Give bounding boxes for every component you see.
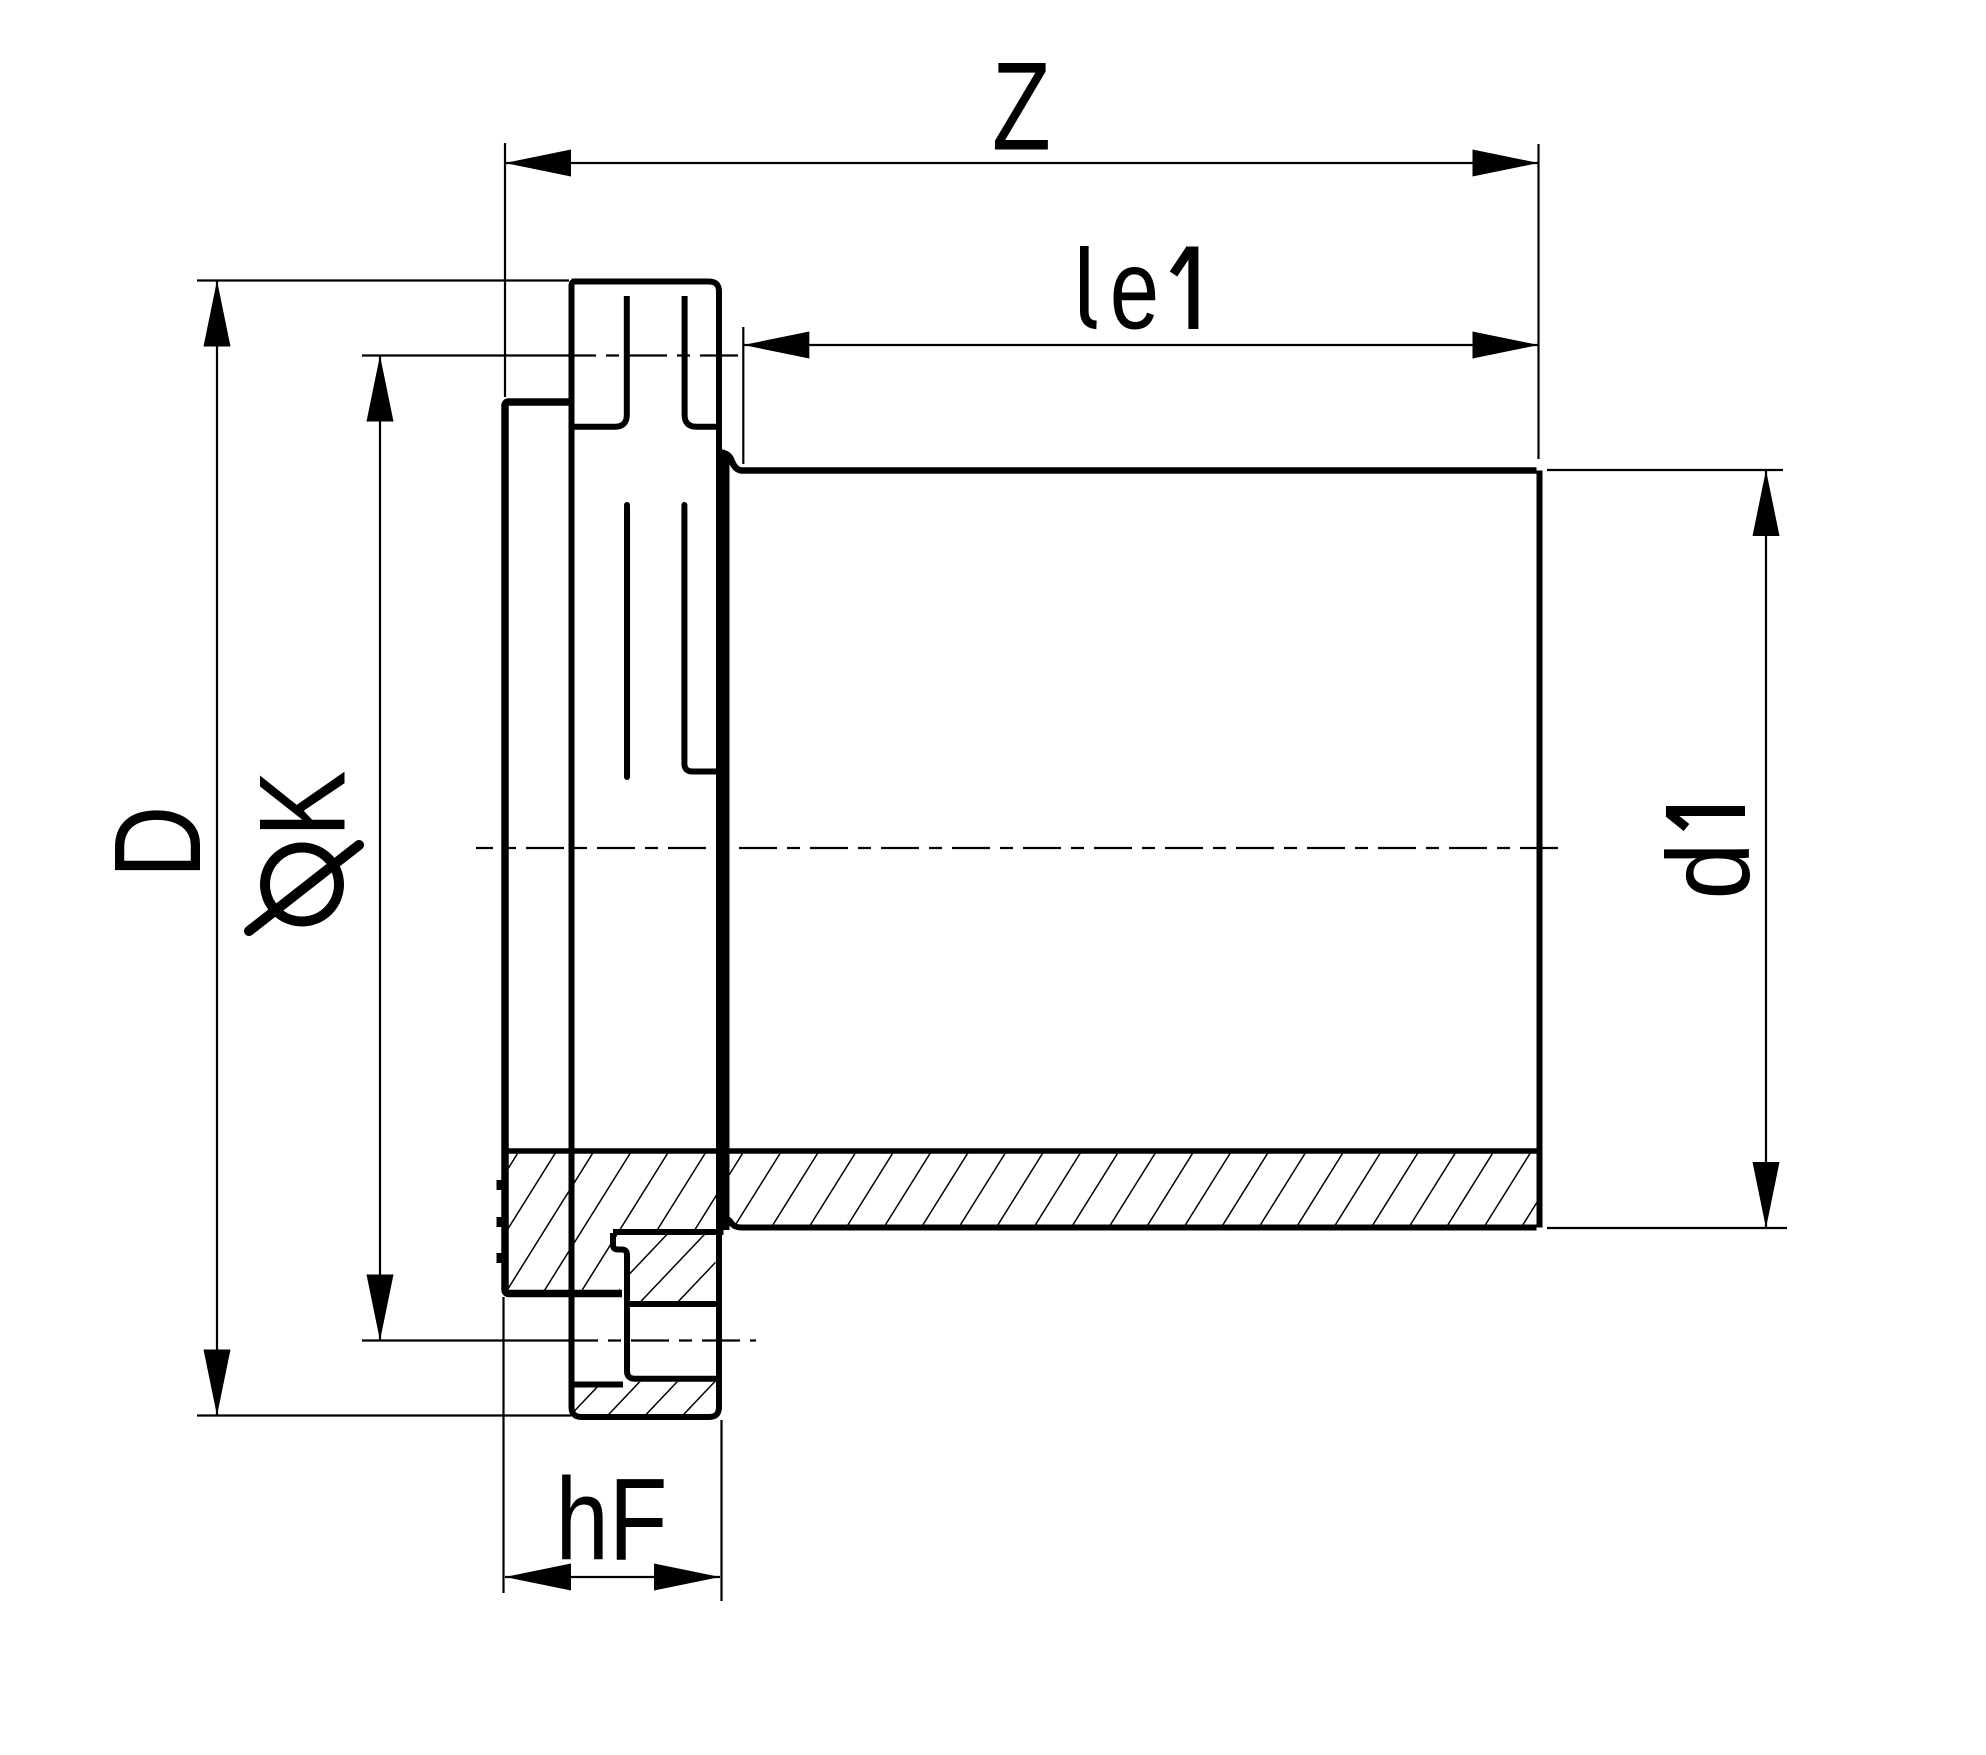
arrow Z right xyxy=(1473,150,1539,177)
bolt hole centerline bottom solid lead xyxy=(362,1339,598,1341)
extension line D top xyxy=(197,279,569,281)
arrow le1 right xyxy=(1473,332,1539,359)
arrow OK bottom xyxy=(367,1275,394,1341)
arrow Z left xyxy=(505,150,571,177)
pipe shoulder bump top and pipe top edge xyxy=(721,453,1537,471)
svg-text:D: D xyxy=(89,806,227,879)
extension line d1 bottom xyxy=(1547,1227,1787,1229)
pipe bottom edge and shoulder bump bottom xyxy=(721,1218,1537,1228)
extension line d1 top xyxy=(1547,469,1783,471)
bolt hole edge lower-right (view) xyxy=(684,505,719,772)
arrow hF right xyxy=(654,1564,720,1591)
dimension line OK xyxy=(379,356,381,1341)
label OK : O circle part xyxy=(265,848,339,922)
bolt hole centerline top solid lead xyxy=(362,354,596,356)
pipe bore line (section) xyxy=(505,1148,1537,1154)
label le1 : 1 glyph stem xyxy=(1188,247,1198,330)
label le1 : l glyph xyxy=(1084,246,1096,325)
hatch backing ring lower part xyxy=(575,1382,716,1414)
svg-text:e: e xyxy=(1110,225,1159,353)
extension line hF right xyxy=(720,1420,722,1601)
bolt hole centerline top dashed xyxy=(606,354,741,356)
label d1 : 1 glyph flag (rotated) xyxy=(1669,813,1687,828)
arrow le1 left xyxy=(743,332,809,359)
ring bore / hub contact line xyxy=(613,1229,724,1235)
arrow d1 bottom xyxy=(1753,1162,1780,1228)
hub back line xyxy=(722,455,730,1230)
bolt hole edge lower-left (view) xyxy=(624,505,630,777)
dimension line d1 xyxy=(1765,470,1767,1228)
dimension line le1 xyxy=(743,344,1538,346)
extension line Z left xyxy=(504,143,506,397)
arrow d1 top xyxy=(1753,470,1780,536)
bolt hole top (section) xyxy=(630,1301,716,1307)
extension line D bottom xyxy=(197,1414,571,1416)
centerline pipe axis xyxy=(476,847,1560,849)
svg-text:Z: Z xyxy=(992,36,1051,176)
arrow hF left xyxy=(505,1564,571,1591)
bolt hole centerline bottom dashed xyxy=(608,1339,756,1341)
ring front shelf left segment xyxy=(572,296,627,427)
serration ticks on face xyxy=(497,1180,503,1190)
hatch backing ring upper part xyxy=(630,1235,716,1301)
backing ring left face / bottom / back xyxy=(572,282,720,1418)
backing ring top edge and back face upper xyxy=(572,282,720,1233)
arrow D top xyxy=(204,281,231,347)
collar sealing face outline xyxy=(505,402,622,1294)
ring front shelf right segment xyxy=(685,296,720,427)
dimension line hF xyxy=(505,1576,720,1578)
arrow OK top xyxy=(367,356,394,422)
svg-text:d: d xyxy=(1644,842,1775,899)
svg-text:K: K xyxy=(232,771,370,838)
label d1 : 1 glyph stem (rotated) xyxy=(1666,806,1745,816)
hatch collar cross-section (pipe wall + flange) xyxy=(508,1154,1537,1291)
ring bore notch and recess shoulder and hole bottom xyxy=(613,1233,716,1379)
dimension line Z xyxy=(505,162,1539,164)
label OK : O slash part xyxy=(249,845,359,931)
extension line Z/le1 right xyxy=(1537,144,1539,459)
pipe right end face xyxy=(1537,471,1543,1228)
dimension line D xyxy=(216,281,218,1416)
counterbore bottom (section) xyxy=(572,1382,624,1388)
label le1 : 1 glyph flag xyxy=(1174,249,1191,275)
extension line le1 left xyxy=(742,327,744,464)
arrow D bottom xyxy=(204,1350,231,1416)
svg-text:hF: hF xyxy=(556,1453,668,1584)
extension line hF left xyxy=(502,1297,504,1593)
